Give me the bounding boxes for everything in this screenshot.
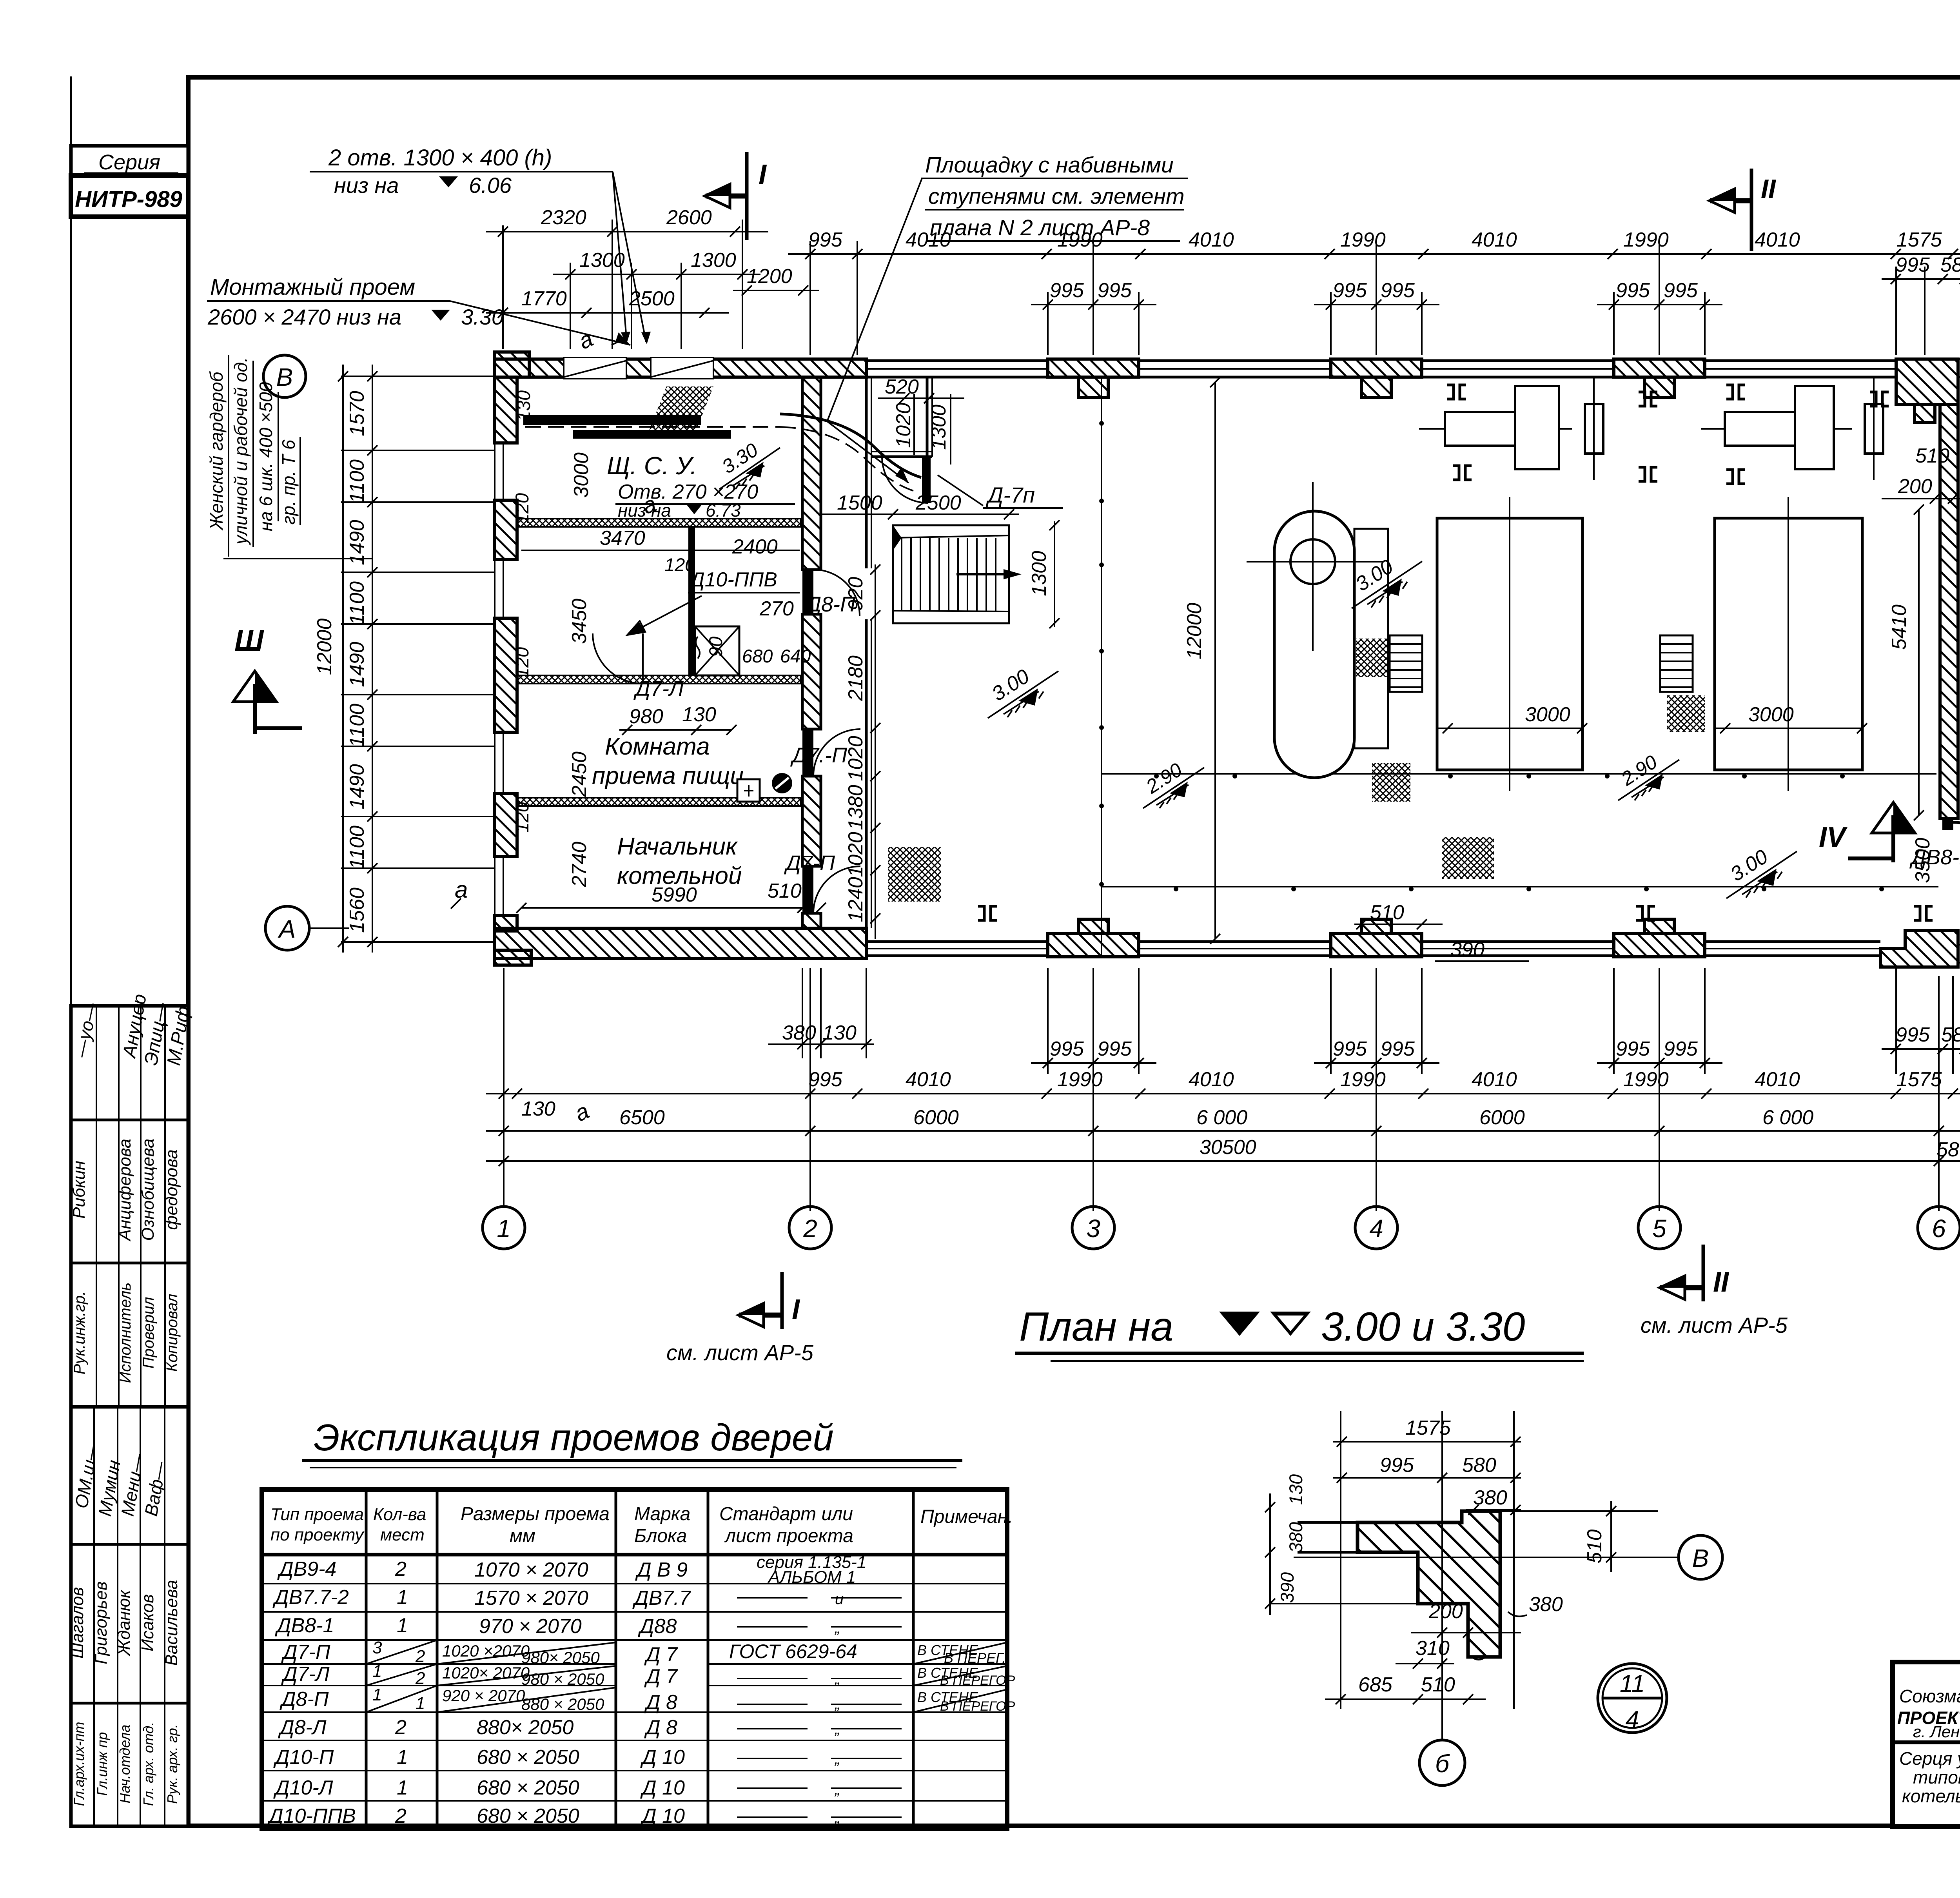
annex partition P3 <box>517 798 800 806</box>
svg-text:1300: 1300 <box>691 249 736 272</box>
svg-text:1100: 1100 <box>346 581 368 625</box>
room label Sh.S.U. <box>607 452 795 521</box>
svg-text:II: II <box>1713 1267 1730 1298</box>
svg-text:Блока: Блока <box>634 1526 687 1546</box>
svg-text:1020 ×2070: 1020 ×2070 <box>442 1642 530 1660</box>
section mark III (left) <box>233 624 302 734</box>
platform edge dotted vertical <box>1099 377 1104 956</box>
svg-text:Д10-ППВ: Д10-ППВ <box>688 568 777 591</box>
corner detail: bottom dims <box>1325 1593 1563 1704</box>
economizer bay 4-5 <box>1701 378 1883 480</box>
svg-text:4010: 4010 <box>1755 1068 1800 1091</box>
svg-text:Исполнитель: Исполнитель <box>117 1283 134 1383</box>
svg-text:1: 1 <box>397 1586 408 1609</box>
bottom pier axis 3 <box>1048 919 1139 957</box>
svg-text:1575: 1575 <box>1896 229 1942 251</box>
svg-text:995: 995 <box>1098 1038 1132 1060</box>
svg-text:Примечан.: Примечан. <box>920 1506 1013 1527</box>
svg-text:580: 580 <box>1940 254 1960 276</box>
tambour room <box>871 377 932 503</box>
bottom 6000 row <box>486 1106 1960 1161</box>
svg-text:Д 10: Д 10 <box>640 1746 685 1769</box>
svg-text:см. лист АР-5: см. лист АР-5 <box>666 1340 814 1365</box>
bottom main dim row <box>486 1068 1960 1127</box>
svg-text:мм: мм <box>510 1526 535 1546</box>
svg-text:I: I <box>792 1294 800 1325</box>
closet partition vertical <box>688 527 695 675</box>
svg-text:типовых проектов: типовых проектов <box>1913 1767 1960 1787</box>
top right corner pier <box>1896 359 1958 423</box>
bottom pier axis 4 <box>1331 919 1422 957</box>
svg-text:6 000: 6 000 <box>1762 1106 1813 1129</box>
hall boundary wall x2210 <box>866 377 871 928</box>
section mark II bottom <box>1641 1245 1788 1337</box>
svg-text:640: 640 <box>780 646 811 666</box>
axis circle A left <box>265 876 468 950</box>
corner detail: dims top <box>1333 1417 1521 1515</box>
svg-text:4010: 4010 <box>1189 229 1234 251</box>
level 3.30 mark <box>718 439 780 489</box>
svg-text:Стандарт или: Стандарт или <box>719 1504 853 1524</box>
svg-text:510: 510 <box>768 880 802 902</box>
svg-text:Д7-П: Д7-П <box>281 1641 330 1664</box>
svg-text:Кол-ва: Кол-ва <box>373 1505 426 1524</box>
svg-text:1490: 1490 <box>346 642 368 687</box>
svg-text:4010: 4010 <box>906 1068 951 1091</box>
svg-text:4: 4 <box>1369 1214 1383 1243</box>
svg-text:на 6 шк. 400 ×500: на 6 шк. 400 ×500 <box>256 382 276 531</box>
svg-text:3000: 3000 <box>570 452 593 498</box>
svg-text:гр. пр. Т 6: гр. пр. Т 6 <box>278 439 299 524</box>
svg-text:995: 995 <box>1050 1038 1084 1060</box>
svg-text:2: 2 <box>415 1647 425 1666</box>
svg-text:АЛЬБОМ 1: АЛЬБОМ 1 <box>767 1568 856 1587</box>
svg-text:120: 120 <box>512 647 532 678</box>
svg-text:2740: 2740 <box>568 842 591 887</box>
montage platform edge lines <box>523 386 921 491</box>
svg-text:2: 2 <box>415 1669 425 1688</box>
svg-text:510: 510 <box>1421 1673 1455 1696</box>
svg-text:Д В 9: Д В 9 <box>635 1559 688 1581</box>
svg-text:4010: 4010 <box>906 229 951 251</box>
svg-text:270: 270 <box>759 597 794 620</box>
svg-text:6000: 6000 <box>913 1106 959 1129</box>
svg-text:390: 390 <box>1450 938 1485 961</box>
corner detail: walls <box>1298 1511 1658 1660</box>
platform dotted lines <box>1102 774 1938 891</box>
svg-text:В: В <box>1692 1544 1709 1572</box>
svg-text:4010: 4010 <box>1472 229 1517 251</box>
table title <box>302 1417 962 1468</box>
svg-text:580: 580 <box>1462 1454 1496 1477</box>
svg-text:995: 995 <box>1896 1023 1930 1046</box>
svg-text:„: „ <box>834 1720 840 1738</box>
svg-text:В ПЕРЕГОР: В ПЕРЕГОР <box>940 1673 1015 1688</box>
svg-text:980× 2050: 980× 2050 <box>521 1648 600 1667</box>
top pier axis 4 <box>1331 359 1422 397</box>
top witness lines <box>503 220 1925 355</box>
svg-text:Васильева: Васильева <box>162 1580 181 1666</box>
svg-text:995: 995 <box>1333 1038 1367 1060</box>
svg-text:ДВ9-4: ДВ9-4 <box>277 1558 336 1580</box>
svg-text:2180: 2180 <box>844 655 867 701</box>
svg-text:5410: 5410 <box>1888 604 1911 650</box>
svg-text:1070 × 2070: 1070 × 2070 <box>474 1559 588 1581</box>
svg-text:Экспликация проемов дверей: Экспликация проемов дверей <box>314 1417 834 1459</box>
svg-text:3000: 3000 <box>1748 703 1794 726</box>
svg-text:680 × 2050: 680 × 2050 <box>477 1746 579 1769</box>
door DV8-1 <box>1909 818 1960 887</box>
door openings table <box>262 1490 1015 1829</box>
svg-text:5990: 5990 <box>652 884 697 906</box>
svg-text:3: 3 <box>1086 1214 1100 1243</box>
dim 390 bottom <box>1435 938 1529 961</box>
bottom 995 pairs rows <box>1031 1023 1960 1068</box>
deaerator cylinder <box>1247 482 1384 778</box>
platform strip right of cylinder <box>1354 529 1388 748</box>
right dim chain <box>1958 329 1960 1015</box>
svg-text:995: 995 <box>1616 279 1650 302</box>
svg-text:4: 4 <box>1626 1706 1639 1733</box>
svg-text:920 × 2070: 920 × 2070 <box>442 1686 525 1705</box>
svg-text:Серця унифицированных: Серця унифицированных <box>1899 1748 1960 1769</box>
svg-text:Рук. арх. гр.: Рук. арх. гр. <box>164 1724 180 1804</box>
svg-text:6.06: 6.06 <box>469 173 512 198</box>
svg-text:федорова: федорова <box>162 1149 181 1230</box>
svg-text:Анциферова: Анциферова <box>115 1139 134 1242</box>
top main dim row 995/4010/1990 <box>788 229 1960 259</box>
svg-text:Гл. арх. отд.: Гл. арх. отд. <box>140 1722 156 1806</box>
dim 5990 <box>516 884 808 913</box>
svg-text:3000: 3000 <box>1525 703 1570 726</box>
interior dim labels annex <box>512 452 811 887</box>
section mark II (top) <box>1710 169 1777 251</box>
svg-text:лист проекта: лист проекта <box>724 1526 853 1546</box>
svg-text:1990: 1990 <box>1057 1068 1103 1091</box>
svg-text:995: 995 <box>1381 279 1415 302</box>
svg-text:1240: 1240 <box>844 877 867 922</box>
svg-text:ДВ7.7: ДВ7.7 <box>632 1587 691 1609</box>
svg-text:920: 920 <box>844 577 867 611</box>
svg-text:510: 510 <box>1583 1530 1606 1564</box>
svg-text:приема пищи: приема пищи <box>592 762 744 789</box>
door D7-L arc in partition P2 <box>593 633 643 684</box>
top dim row 1770 2500 <box>486 287 729 318</box>
svg-text:2: 2 <box>395 1805 407 1827</box>
svg-text:30500: 30500 <box>1200 1136 1256 1159</box>
svg-text:ДВ8-1: ДВ8-1 <box>275 1614 334 1637</box>
boiler 1 <box>1437 497 1587 791</box>
svg-text:Монтажный проем: Монтажный проем <box>210 274 415 300</box>
svg-text:1990: 1990 <box>1340 1068 1386 1091</box>
detail ref circle 11/4 <box>1598 1664 1667 1733</box>
svg-text:510: 510 <box>1370 901 1404 924</box>
title block <box>1893 1662 1960 1827</box>
svg-text:1575: 1575 <box>1405 1417 1451 1439</box>
rotated note: women wardrobe block <box>206 355 372 559</box>
svg-text:580: 580 <box>1941 1023 1960 1046</box>
svg-text:310: 310 <box>1416 1637 1450 1660</box>
stair dim 2500 <box>888 492 1019 519</box>
svg-text:12000: 12000 <box>1183 603 1206 660</box>
bottom 30500 row <box>486 1136 1960 1166</box>
svg-text:Исаков: Исаков <box>138 1594 157 1651</box>
svg-text:970 × 2070: 970 × 2070 <box>479 1615 582 1638</box>
svg-text:1575: 1575 <box>1896 1068 1942 1091</box>
right wall bottom pier <box>1880 931 1958 967</box>
svg-text:Д8-П: Д8-П <box>279 1688 329 1711</box>
svg-text:130: 130 <box>513 390 534 421</box>
svg-text:6.73: 6.73 <box>706 500 741 521</box>
svg-text:Д 10: Д 10 <box>640 1805 685 1827</box>
svg-text:Площадку с набивными: Площадку с набивными <box>925 152 1174 178</box>
hatch pad C <box>1667 695 1705 732</box>
svg-text:А: А <box>278 915 296 943</box>
door labels <box>633 593 856 875</box>
annex partition P2 <box>517 675 800 684</box>
section mark IV (in plan) <box>1819 802 1915 862</box>
svg-text:г. Ленинград: г. Ленинград <box>1913 1722 1960 1741</box>
svg-text:1990: 1990 <box>1057 229 1103 251</box>
svg-text:Д10-П: Д10-П <box>273 1746 334 1769</box>
right wall dims 200 380 <box>1882 472 1960 504</box>
top dim row annex 2320 2600 <box>486 206 768 237</box>
top window axis 3-4 <box>1139 361 1331 377</box>
svg-text:1100: 1100 <box>346 826 368 869</box>
svg-text:995: 995 <box>1050 279 1084 302</box>
main plan title <box>1015 1304 1584 1361</box>
svg-text:Д7.-П: Д7.-П <box>790 744 848 767</box>
svg-text:Копировал: Копировал <box>163 1294 181 1372</box>
svg-text:5: 5 <box>1652 1214 1666 1243</box>
svg-text:см. лист АР-5: см. лист АР-5 <box>1641 1313 1788 1337</box>
svg-text:Жданюк: Жданюк <box>114 1589 134 1656</box>
svg-text:Ознобищева: Ознобищева <box>138 1139 158 1241</box>
level mark 3.00 cylinder <box>1352 555 1422 608</box>
svg-text:1: 1 <box>497 1214 511 1243</box>
svg-text:1300: 1300 <box>927 405 950 450</box>
svg-text:995: 995 <box>1381 1038 1415 1060</box>
svg-text:4010: 4010 <box>1755 229 1800 251</box>
svg-text:Д 8: Д 8 <box>644 1691 677 1714</box>
boiler 2 <box>1715 497 1867 791</box>
label D-7p <box>938 475 1063 508</box>
svg-text:„: „ <box>834 1670 840 1688</box>
boiler ladder 1 <box>1390 635 1422 692</box>
svg-text:580: 580 <box>1936 1138 1960 1161</box>
left total dim 12000 <box>313 365 348 953</box>
svg-text:Д 8: Д 8 <box>644 1716 677 1739</box>
svg-text:995: 995 <box>808 229 843 251</box>
svg-text:Союзмашстройпроект: Союзмашстройпроект <box>1899 1686 1960 1706</box>
svg-text:1: 1 <box>397 1614 408 1637</box>
svg-text:380: 380 <box>1529 1593 1563 1616</box>
tambour dims <box>878 376 964 465</box>
dim 5410 <box>1888 504 1924 820</box>
svg-text:680 × 2050: 680 × 2050 <box>477 1776 579 1799</box>
svg-text:390: 390 <box>1277 1572 1298 1603</box>
annex partition P1 <box>517 519 800 527</box>
svg-text:„: „ <box>834 1619 840 1637</box>
svg-text:1020: 1020 <box>844 736 867 781</box>
dim 510 pier <box>768 880 826 913</box>
hatch pad D <box>888 847 941 902</box>
corner detail: axis lines <box>1270 1411 1679 1739</box>
svg-text:1: 1 <box>372 1662 382 1681</box>
svg-text:Проверил: Проверил <box>140 1297 157 1369</box>
svg-text:„: „ <box>834 1781 840 1798</box>
svg-text:1770: 1770 <box>521 287 567 310</box>
svg-text:Д88: Д88 <box>638 1615 677 1638</box>
svg-text:Рук.инж.гр.: Рук.инж.гр. <box>71 1291 88 1375</box>
closet D10-PPV with cross <box>695 626 739 675</box>
svg-text:1570: 1570 <box>346 391 368 436</box>
level mark 3.00 right <box>1726 845 1797 898</box>
signature stamp lower <box>68 1407 188 1826</box>
svg-text:1490: 1490 <box>346 520 368 565</box>
svg-text:3.00 и 3.30: 3.00 и 3.30 <box>1321 1304 1525 1350</box>
svg-text:3450: 3450 <box>568 599 591 644</box>
svg-text:3470: 3470 <box>600 527 645 550</box>
svg-text:мест: мест <box>380 1525 425 1544</box>
section mark I bottom <box>666 1272 814 1365</box>
svg-text:Д8-Л: Д8-Л <box>278 1716 327 1739</box>
svg-text:2: 2 <box>395 1558 407 1580</box>
svg-text:1020: 1020 <box>844 832 867 877</box>
top 995 pairs rows <box>1031 254 1960 310</box>
svg-text:Тип проема: Тип проема <box>270 1505 364 1524</box>
svg-text:1990: 1990 <box>1623 229 1669 251</box>
svg-text:Д7-П: Д7-П <box>784 851 835 875</box>
svg-text:В: В <box>276 363 293 391</box>
svg-text:ступенями см. элемент: ступенями см. элемент <box>928 184 1185 209</box>
svg-text:Гл.арх.их-пт: Гл.арх.их-пт <box>71 1722 87 1806</box>
svg-text:I: I <box>759 159 767 191</box>
top dim row 1300 1300 <box>553 249 760 279</box>
svg-text:Нач.отдела: Нач.отдела <box>117 1725 133 1804</box>
hatch pad B <box>1372 763 1410 802</box>
svg-text:1380: 1380 <box>844 785 867 830</box>
note: montage opening <box>207 274 630 345</box>
bottom witness lines <box>504 968 1953 1211</box>
dim 130 top left wall <box>513 326 597 421</box>
svg-text:1990: 1990 <box>1623 1068 1669 1091</box>
wall openings 2 otv <box>564 357 626 379</box>
svg-text:В ПЕРЕГ.: В ПЕРЕГ. <box>944 1650 1006 1666</box>
svg-text:уличной и рабочей од.: уличной и рабочей од. <box>230 357 251 546</box>
right wall <box>1940 405 1958 818</box>
level mark 3.00 left <box>988 665 1058 718</box>
dim 3500 <box>1911 838 1934 883</box>
boiler ladder 2 <box>1660 635 1693 692</box>
corner detail: axis circle 6 <box>1419 1740 1465 1785</box>
svg-text:120: 120 <box>512 802 532 833</box>
svg-text:плана N 2 лист АР-8: плана N 2 лист АР-8 <box>930 215 1150 240</box>
bottom wall annex (hatched) <box>495 928 866 965</box>
svg-text:3: 3 <box>372 1638 382 1657</box>
hatch pad G <box>1442 837 1494 879</box>
svg-text:Размеры проема: Размеры проема <box>461 1504 610 1524</box>
svg-text:1100: 1100 <box>346 704 368 748</box>
svg-text:120: 120 <box>664 554 695 575</box>
svg-text:6 000: 6 000 <box>1196 1106 1247 1129</box>
svg-text:1200: 1200 <box>747 265 792 288</box>
svg-text:Д-7п: Д-7п <box>985 483 1035 507</box>
left wall with windows <box>495 377 517 931</box>
svg-text:План на: План на <box>1019 1304 1173 1350</box>
bottom window axis 4-5 <box>1422 942 1614 956</box>
svg-text:В ПЕРЕГОР: В ПЕРЕГОР <box>940 1699 1015 1714</box>
axis circle V left <box>263 355 306 397</box>
svg-text:по проекту: по проекту <box>270 1525 365 1544</box>
svg-text:11: 11 <box>1620 1670 1645 1697</box>
room label Komnata priema pischi <box>592 733 744 789</box>
leader to wall openings <box>612 172 646 345</box>
svg-text:130: 130 <box>1285 1474 1306 1505</box>
svg-text:б: б <box>1435 1749 1450 1778</box>
svg-text:4010: 4010 <box>1189 1068 1234 1091</box>
svg-text:низ на: низ на <box>334 173 399 198</box>
svg-text:Рибкин: Рибкин <box>69 1161 89 1219</box>
svg-text:Д7-Л: Д7-Л <box>633 677 684 700</box>
svg-text:Д 7: Д 7 <box>644 1643 678 1666</box>
svg-text:Щ. С. У.: Щ. С. У. <box>607 452 697 480</box>
svg-text:2320: 2320 <box>541 206 586 229</box>
svg-text:1560: 1560 <box>346 887 368 933</box>
svg-text:НИТР-989: НИТР-989 <box>75 187 182 212</box>
rows col6 remarks <box>913 1642 1007 1664</box>
section mark I (top) <box>705 152 767 240</box>
svg-text:1990: 1990 <box>1340 229 1386 251</box>
svg-text:Марка: Марка <box>634 1504 690 1524</box>
svg-text:6000: 6000 <box>1479 1106 1525 1129</box>
section a mark top <box>639 491 660 519</box>
svg-text:„: „ <box>834 1809 840 1826</box>
svg-text:995: 995 <box>1616 1038 1650 1060</box>
top window axis 4-5 <box>1422 361 1614 377</box>
svg-text:Григорьев: Григорьев <box>91 1581 111 1664</box>
svg-text:Гл.инж пр: Гл.инж пр <box>94 1732 110 1796</box>
svg-text:2500: 2500 <box>915 492 961 514</box>
svg-text:880× 2050: 880× 2050 <box>477 1716 573 1739</box>
svg-text:880 × 2050: 880 × 2050 <box>521 1695 604 1713</box>
level mark 2.90 n2 <box>1617 751 1679 800</box>
note: platform with steps see element plan N2 sheet AP-8 <box>827 152 1188 483</box>
left dim chain <box>341 365 495 953</box>
svg-text:„: „ <box>834 1750 840 1767</box>
stair 2500 <box>893 525 1022 623</box>
stair dim 1300 <box>1028 520 1060 628</box>
bottom window band axis2-3 <box>866 942 1048 956</box>
bottom window axis 3-4 <box>1139 942 1331 956</box>
corridor dim chain <box>844 564 880 939</box>
svg-text:1500: 1500 <box>837 492 882 514</box>
svg-text:Начальник: Начальник <box>617 833 738 860</box>
svg-text:1490: 1490 <box>346 764 368 809</box>
top pier axis 5 <box>1614 359 1705 397</box>
dim 510 bottom pier <box>1354 901 1443 929</box>
svg-text:1: 1 <box>397 1746 408 1769</box>
svg-text:Комната: Комната <box>605 733 710 760</box>
bottom pier axis 5 <box>1614 919 1705 957</box>
svg-text:1300: 1300 <box>579 249 625 272</box>
top wall annex (hatched) <box>495 352 866 379</box>
note: 2 holes 1300x400 <box>310 145 651 345</box>
svg-text:„: „ <box>834 1695 840 1713</box>
svg-text:980: 980 <box>629 705 663 728</box>
svg-text:12000: 12000 <box>313 619 336 675</box>
svg-text:680: 680 <box>742 646 773 666</box>
